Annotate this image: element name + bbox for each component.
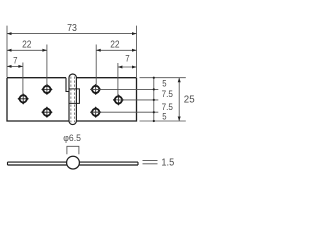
svg-text:7.5: 7.5 [162, 89, 173, 99]
svg-text:7: 7 [125, 52, 129, 63]
hinge leaf body outline (top view) [7, 78, 137, 121]
dimension 7 left line [7, 65, 23, 67]
screw hole right pair top [90, 84, 101, 95]
svg-text:73: 73 [67, 23, 77, 34]
screw hole left pair top [42, 84, 53, 95]
svg-text:1.5: 1.5 [161, 158, 174, 169]
svg-text:22: 22 [110, 40, 120, 51]
dimension 22 left line [7, 49, 47, 51]
left leaf notch near knuckle [66, 78, 69, 92]
svg-text:25: 25 [184, 95, 195, 106]
svg-text:7.5: 7.5 [162, 102, 173, 112]
side view leaf bar bottom line [8, 164, 139, 166]
extension line right edge [136, 26, 138, 77]
bar right end cap [137, 162, 139, 165]
pin hidden dashed lines [71, 77, 75, 123]
svg-text:5: 5 [162, 78, 166, 88]
tick dimension line for 5/7.5/7.5/5 [153, 78, 155, 121]
screw hole right pair bottom [90, 107, 101, 118]
dimension 7 right line [118, 66, 137, 68]
extension line x23 [22, 63, 24, 96]
right side row extension lines [140, 77, 186, 79]
extension line left edge [6, 26, 8, 77]
knuckle middle segment rectangle [69, 89, 79, 104]
svg-text:22: 22 [22, 39, 32, 50]
svg-text:φ6.5: φ6.5 [63, 133, 81, 143]
side view leaf bar top line [8, 161, 139, 163]
extension line x47 [46, 45, 48, 87]
extension line x96 [95, 45, 97, 87]
knuckle capsule [69, 74, 76, 125]
extension line x118 [117, 63, 119, 96]
phi 6.5 leader bracket [67, 146, 79, 154]
dimension 73 line [7, 33, 137, 35]
svg-text:7: 7 [13, 54, 17, 65]
svg-text:5: 5 [162, 112, 166, 122]
thickness callout lines [143, 161, 158, 164]
bar left end cap [7, 162, 9, 165]
dimension 22 right line [96, 49, 136, 51]
screw hole left pair bottom [42, 107, 53, 118]
dimension 25 line [178, 78, 180, 121]
knuckle circle (side view) [67, 156, 80, 169]
screw hole left single [18, 93, 29, 104]
screw hole right single [113, 95, 124, 106]
